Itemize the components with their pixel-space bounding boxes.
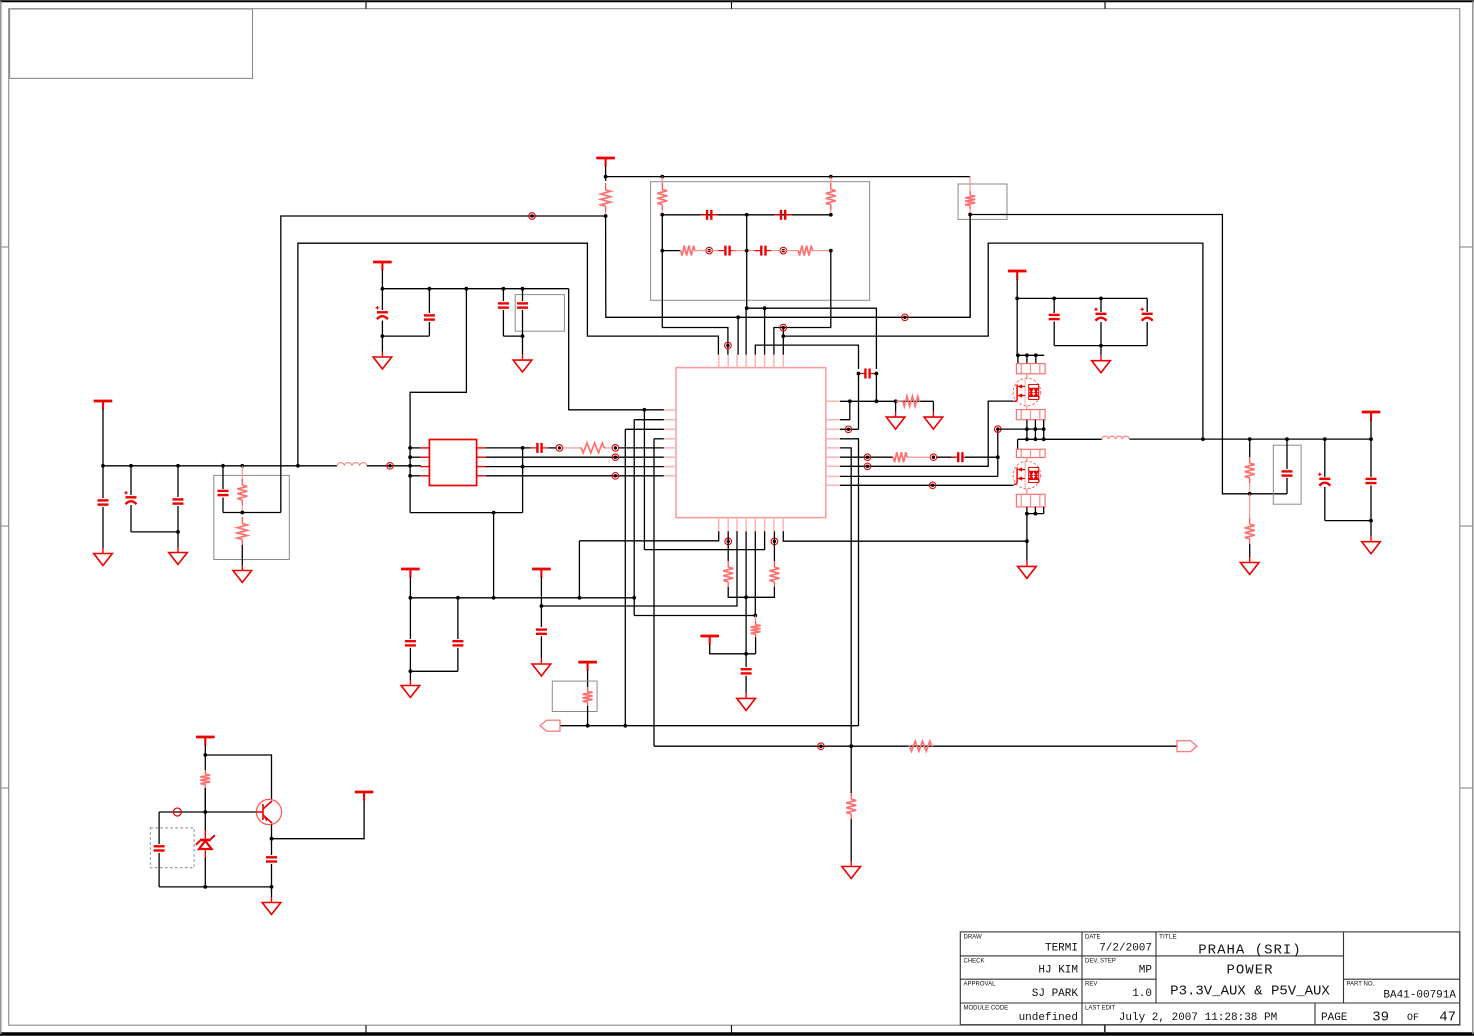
- dashed box zener group: [150, 828, 194, 868]
- wire tq stem: [204, 745, 206, 770]
- title block: [960, 932, 1460, 1025]
- transistor Q3: [256, 799, 281, 824]
- svg-text:PRAHA (SRI): PRAHA (SRI): [1198, 943, 1301, 959]
- wire fb row2 mid: [733, 250, 761, 252]
- wire SW bar upper: [998, 428, 1044, 430]
- port base: [173, 808, 181, 816]
- wire IC1-U2 row2: [486, 456, 664, 458]
- capacitor C-o1: [1286, 439, 1288, 469]
- power flag VIN rail: [373, 262, 392, 271]
- resistor R-top: [605, 183, 607, 190]
- wire R-b2 bottom: [728, 587, 746, 597]
- wire R-fb1 to port: [606, 447, 612, 449]
- wire U2 R1 row: [840, 400, 933, 402]
- wire en stem: [587, 670, 589, 687]
- package Q1 drain: [1016, 364, 1045, 374]
- capacitor C-fb1 series: [537, 443, 541, 453]
- wire C-g1 to node: [965, 456, 998, 458]
- port VSNS on feedback loop: [529, 213, 536, 220]
- wire cvc3 bottom: [540, 636, 542, 658]
- wire SW bar lower: [1018, 438, 1102, 440]
- ground C-in1: [94, 548, 113, 566]
- svg-text:P3.3V_AUX & P5V_AUX: P3.3V_AUX & P5V_AUX: [1170, 984, 1330, 1000]
- resistor R-fbD: [796, 250, 799, 252]
- svg-text:PART NO.: PART NO.: [1347, 982, 1375, 988]
- port PGOOD mid: [818, 743, 825, 750]
- wire U2 B8 row: [783, 531, 1027, 541]
- svg-text:CHECK: CHECK: [964, 958, 985, 964]
- capacitor C-fbA: [707, 210, 711, 220]
- package Q2 source: [1026, 489, 1028, 495]
- port U2 B2: [725, 538, 732, 545]
- power flag T-q: [196, 737, 215, 746]
- resistor R-g1: [892, 456, 895, 458]
- power flag T-vcc2: [532, 569, 551, 578]
- wire C-o2 bottom link: [1325, 520, 1371, 522]
- wire pin T6 up: [764, 308, 766, 355]
- U2 pin stubs: [664, 355, 840, 532]
- power flag T-b4: [700, 636, 719, 645]
- wire gate1 node vertical: [997, 429, 999, 476]
- ground C-b4: [737, 693, 756, 711]
- ground C-v1: [381, 336, 383, 351]
- resistor R-fbC: [679, 250, 682, 252]
- wire base left drop: [158, 812, 160, 844]
- resistor R-cs: [902, 400, 903, 402]
- svg-text:POWER: POWER: [1226, 963, 1273, 979]
- svg-text:APPROVAL: APPROVAL: [964, 982, 997, 988]
- svg-text:TERMI: TERMI: [1045, 943, 1078, 955]
- wire input rail: [103, 465, 337, 467]
- power flag top P3.3V: [596, 158, 615, 167]
- port U2 R9: [929, 482, 936, 489]
- resistor R-div1: [1249, 439, 1251, 457]
- feedback network group box: [651, 182, 870, 301]
- svg-text:47: 47: [1439, 1010, 1456, 1026]
- wire Q1 source pins to SW: [1026, 420, 1028, 440]
- capacitor C-in3: [177, 466, 179, 497]
- wire R-b5 top lead: [754, 616, 756, 621]
- wire pgood rail: [654, 745, 1177, 747]
- capacitor C-v2: [428, 289, 430, 313]
- wire U2 L3 drop: [624, 429, 626, 725]
- resistor R-sense: [969, 177, 971, 191]
- wire fb row2 right end: [813, 250, 830, 252]
- svg-text:HJ KIM: HJ KIM: [1038, 965, 1078, 977]
- capacitor C-sn: [222, 466, 224, 489]
- wire U2 R7 to gate1: [840, 401, 1014, 466]
- power flag T-en: [578, 662, 597, 671]
- capacitor C-q1: [154, 846, 165, 850]
- wire U2 B6 row: [644, 531, 764, 549]
- wire U2 L3 row: [625, 428, 664, 430]
- wire T-b4 stem: [710, 644, 756, 654]
- inductor L-in: [337, 463, 367, 466]
- wire R-ss bottom: [850, 819, 852, 861]
- wire R-sense bottom loop right: [970, 215, 1287, 494]
- wire fb row2 left: [662, 215, 680, 251]
- mosfet Q1: [1026, 374, 1028, 379]
- resistor R-sn2: [241, 517, 243, 524]
- svg-text:DRAW: DRAW: [964, 934, 982, 940]
- wire vcc1 stem: [409, 577, 411, 598]
- port U2 R6a: [864, 454, 871, 461]
- resistor R-b7: [773, 561, 775, 567]
- wire R-b7 bottom: [746, 587, 774, 597]
- wire row IC1 out1: [486, 447, 531, 449]
- port U2 R7: [864, 463, 871, 470]
- ground C-v4: [522, 336, 524, 355]
- wire fb row2 c1: [696, 250, 723, 252]
- capacitor C-vc1: [409, 598, 411, 639]
- capacitor C-vc2: [457, 598, 459, 639]
- wire input sense riser: [298, 243, 719, 466]
- ground Q2 source: [1018, 561, 1037, 579]
- wire pin T8 net: [782, 329, 784, 355]
- ground R-cs left: [895, 401, 897, 411]
- wire R-g1 to port: [908, 456, 929, 458]
- svg-text:MP: MP: [1139, 965, 1153, 977]
- capacitor C-v3: [502, 289, 504, 301]
- wire enable rail: [560, 725, 859, 727]
- power flag T-qe: [355, 792, 374, 801]
- wire VIN top corner to IC1: [382, 288, 568, 290]
- inductor L-out: [1102, 436, 1130, 439]
- capacitor C-m2 polarized: [1100, 298, 1102, 312]
- IC1 left pin bus: [409, 448, 411, 513]
- wire B1 drop: [578, 541, 580, 598]
- ground R-sn2: [233, 565, 252, 583]
- package Q2 drain: [1016, 449, 1045, 457]
- svg-text:REV: REV: [1085, 982, 1097, 988]
- wire IC1 bottom link: [410, 512, 522, 514]
- wire IC1 left pin stubs to bus: [410, 456, 420, 458]
- port pin T2: [725, 342, 732, 349]
- wire IC1 bottom drop: [493, 513, 495, 598]
- ground R-ss: [842, 861, 861, 879]
- wire output flag stem: [1370, 420, 1372, 439]
- svg-text:BA41-00791A: BA41-00791A: [1383, 990, 1456, 1002]
- wire bottom rail q: [159, 886, 271, 888]
- wire U2 B5 drop: [754, 531, 756, 615]
- wire mosfet cap gnd rail: [1054, 345, 1147, 347]
- ground transistor: [262, 897, 281, 915]
- wire U2 R2 to R1: [840, 401, 850, 419]
- svg-text:DATE: DATE: [1085, 934, 1101, 940]
- wire sense net riser left: [606, 215, 971, 318]
- capacitor C-fbD: [761, 246, 765, 256]
- port arrow PGOOD: [1177, 741, 1197, 752]
- wire port to C-g1: [937, 456, 955, 458]
- sheet border: [0, 0, 1474, 2]
- port gate1 boot: [995, 426, 1002, 433]
- ground output: [1362, 536, 1381, 554]
- wire emitter: [271, 825, 273, 839]
- capacitor C-m3 polarized: [1146, 298, 1148, 312]
- wire C-fb1 to port: [549, 447, 557, 449]
- svg-text:July 2, 2007 11:28:38 PM: July 2, 2007 11:28:38 PM: [1119, 1012, 1277, 1024]
- resistor R-sn1: [241, 466, 243, 479]
- wire C-v1 C-v2 join: [382, 335, 429, 337]
- wire VO sense row: [783, 243, 1203, 439]
- wire fb right leg down: [774, 251, 831, 355]
- wire IC1-U2 row3: [486, 466, 664, 468]
- IC1 body: [429, 440, 476, 486]
- capacitor C-q2: [271, 839, 273, 855]
- svg-text:SJ PARK: SJ PARK: [1032, 988, 1079, 1000]
- power flag VIN mosfet: [1008, 271, 1027, 280]
- wire U2 B4 drop: [745, 531, 747, 654]
- wire boot row: [747, 308, 877, 369]
- ground R-div2: [1240, 557, 1259, 575]
- wire B6 riser link: [643, 410, 645, 550]
- node dots input rail: [101, 464, 105, 468]
- wire R-q1 bottom: [204, 788, 206, 812]
- wire port to U2: [619, 447, 664, 449]
- wire zener leads: [204, 788, 206, 830]
- capacitor C-v1 polarized: [381, 289, 383, 310]
- port arrow EN: [540, 720, 560, 731]
- capacitor C-g1: [958, 452, 962, 462]
- power flag output: [1362, 412, 1381, 421]
- resistor R-en: [587, 687, 589, 692]
- capacitor C-vc3: [536, 630, 547, 634]
- wire VIN flag stem: [381, 270, 383, 289]
- capacitor C-boot: [865, 369, 869, 379]
- wire U2 L2 drop: [633, 420, 635, 616]
- wire snubber mid node: [223, 512, 281, 514]
- U2 controller body: [676, 368, 826, 518]
- wire input left vertical: [102, 409, 104, 466]
- wire fb caps row: [662, 214, 831, 216]
- wire fb row2 r: [771, 250, 798, 252]
- power flag P5V input left: [94, 401, 113, 410]
- svg-text:39: 39: [1372, 1010, 1389, 1026]
- title block bottom tick: [1104, 1025, 1106, 1034]
- port COMP2: [612, 445, 619, 452]
- wire boot cap left down: [858, 374, 860, 430]
- wire fb left leg down: [662, 251, 728, 355]
- power flag T-vcc1: [401, 569, 420, 578]
- wire U2 R5 down: [840, 448, 851, 746]
- wire C-v3 C-v4 join: [503, 335, 522, 337]
- ground mosfet caps: [1100, 346, 1102, 356]
- wire R-b5 bottom: [755, 637, 757, 653]
- wire fb center leg down: [746, 215, 748, 308]
- capacitor C-o2 polarized: [1324, 439, 1326, 477]
- wire output gnd: [1370, 521, 1372, 537]
- svg-text:MODULE CODE: MODULE CODE: [964, 1006, 1009, 1012]
- port COMP1: [556, 445, 563, 452]
- wire R-ss drop: [850, 746, 852, 793]
- wire vcc rail: [410, 597, 634, 599]
- wire B2 resistor chain: [727, 531, 729, 561]
- wire vcc2 stem: [540, 577, 542, 627]
- svg-text:TITLE: TITLE: [1159, 933, 1177, 940]
- group box C-o1: [1273, 445, 1301, 504]
- capacitor C-o3: [1370, 439, 1372, 477]
- capacitor C-fbB: [781, 210, 785, 220]
- capacitor C-fbC: [725, 246, 729, 256]
- wire U2 R4 down: [840, 439, 859, 726]
- wire U2 L2 row: [634, 419, 664, 421]
- wire pin T3 up: [737, 317, 739, 355]
- wire U2 R9 gate2 row: [840, 484, 1014, 486]
- resistor R-fbB right: [830, 177, 832, 183]
- resistor R-pg: [908, 745, 910, 747]
- port U2 R3: [845, 426, 852, 433]
- zener D1: [196, 830, 215, 860]
- top-left revision box: [10, 9, 253, 78]
- wire mosfet vin rail: [1017, 297, 1147, 299]
- wire Q2 source to gnd: [1026, 514, 1028, 561]
- resistor R-div2: [1249, 518, 1251, 524]
- wire VIN branch to IC1 left: [410, 289, 466, 448]
- wire top flag stem: [605, 166, 607, 181]
- svg-text:OF: OF: [1407, 1013, 1419, 1024]
- wire IC1-U2 row4: [486, 475, 664, 477]
- wire U2 R8 to gate node: [840, 475, 998, 477]
- resistor R-b2: [727, 561, 729, 567]
- wire cvc join: [410, 670, 458, 672]
- wire boot cap right down: [875, 374, 877, 402]
- svg-text:7/2/2007: 7/2/2007: [1099, 943, 1152, 955]
- wire base row: [159, 811, 256, 813]
- wire C-in2 to C-in3 bottom: [131, 531, 178, 533]
- port fb1: [706, 247, 713, 254]
- resistor R-ss: [850, 793, 852, 799]
- wire output rail: [1130, 438, 1372, 440]
- wire feedback left loop: [281, 216, 606, 513]
- capacitor C-in2 polarized: [130, 466, 132, 495]
- snubber group box left: [214, 475, 289, 559]
- resistor R-b5: [755, 621, 757, 625]
- wire top rail: [606, 176, 971, 178]
- resistor R-q1: [204, 770, 206, 774]
- capacitor C-in1: [102, 466, 104, 498]
- wire VIN drop to IC1: [569, 289, 664, 410]
- ground C-vc3: [532, 659, 551, 677]
- group box R-sense: [958, 184, 1007, 219]
- wire after inductor: [367, 465, 421, 467]
- resistor R-fb1: [580, 447, 582, 449]
- IC1 pins: [420, 447, 429, 449]
- port U2 R6b: [930, 454, 937, 461]
- svg-text:LAST EDIT: LAST EDIT: [1085, 1006, 1116, 1012]
- wire B5 link row: [634, 615, 755, 617]
- mosfet Q2: [1026, 458, 1028, 462]
- wire U2 L4 row: [654, 438, 664, 440]
- wire U2 R3 port row: [840, 428, 859, 430]
- group box R-en: [552, 681, 597, 711]
- svg-text:PAGE: PAGE: [1321, 1012, 1348, 1024]
- wire U2 R6 row: [840, 456, 893, 458]
- svg-text:DEV. STEP: DEV. STEP: [1085, 958, 1116, 964]
- wire drain pins Q1: [1017, 355, 1019, 363]
- wire U2 B3 row: [541, 531, 737, 606]
- wire q gnd stem: [271, 887, 273, 897]
- resistor R-fbA left: [661, 177, 663, 183]
- package Q1 source: [1026, 406, 1028, 410]
- wire Q2 source pins: [1026, 507, 1028, 514]
- wire port to R-fb1: [563, 447, 580, 449]
- wire lower drain feed: [1017, 439, 1019, 449]
- wire Q2 source bar: [1027, 513, 1044, 515]
- wire emitter out: [272, 800, 365, 839]
- port fb2: [780, 247, 787, 254]
- wire U2 L4 drop: [653, 439, 655, 746]
- wire drain feed: [1017, 298, 1044, 355]
- port row2: [612, 454, 619, 461]
- capacitor C-b4: [745, 654, 747, 667]
- ground C-vc1: [409, 671, 411, 680]
- wire R-sense bottom down: [969, 215, 971, 318]
- ground R-cs right: [932, 401, 934, 411]
- wire R-en bottom: [587, 706, 589, 726]
- port L-in output: [387, 463, 394, 470]
- port row4: [612, 473, 619, 480]
- wire B7 chain: [773, 531, 775, 561]
- port U2 B7: [771, 538, 778, 545]
- svg-text:1.0: 1.0: [1132, 988, 1152, 1000]
- wire C-in3 to ground: [177, 532, 179, 547]
- wire C-fb vertical branch: [522, 448, 524, 513]
- wire collector top link: [205, 755, 271, 799]
- wire R-cs left lead: [896, 400, 902, 402]
- wire mosfet vin stem: [1016, 279, 1018, 298]
- group box C-v4: [515, 295, 564, 332]
- wire pin T4 up: [745, 308, 747, 355]
- ground C-in3: [169, 547, 188, 565]
- port sense mid: [902, 314, 909, 321]
- wire pin T5 row to boot cap: [755, 345, 858, 369]
- capacitor C-v4: [522, 289, 524, 301]
- wire U2 B1 row: [579, 531, 718, 541]
- port pin T8: [780, 324, 787, 331]
- capacitor C-m1: [1053, 298, 1055, 313]
- svg-text:undefined: undefined: [1019, 1012, 1078, 1024]
